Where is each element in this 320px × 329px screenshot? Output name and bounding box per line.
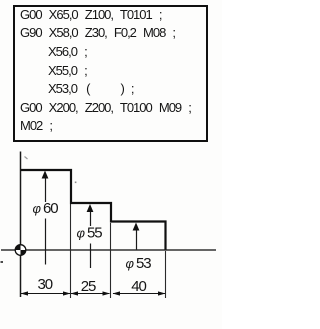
code line 6 [20, 100, 191, 115]
svg-text:φ 53: φ 53 [126, 255, 152, 272]
svg-text:40: 40 [131, 278, 146, 295]
scan speck [25, 157, 28, 160]
dimension phi53 arrowhead [133, 223, 140, 231]
centerline axis [1, 249, 216, 251]
dimension phi53 arrow line [136, 226, 138, 250]
workpiece origin symbol [15, 245, 26, 256]
dimension phi60 arrowhead [42, 171, 49, 179]
code line 5 [48, 81, 134, 96]
program code box [13, 5, 208, 142]
code line 1 [20, 7, 161, 22]
code line 7 [20, 118, 52, 133]
dimension line 25 [71, 293, 110, 295]
code line 3 [48, 44, 87, 59]
svg-text:30: 30 [38, 276, 53, 293]
extension line at x=165.5 [165, 251, 167, 298]
svg-text:25: 25 [81, 278, 96, 295]
svg-text:φ 55: φ 55 [77, 225, 103, 242]
svg-text:φ 60: φ 60 [33, 200, 59, 217]
dimension phi55 arrow line [90, 207, 92, 226]
dimension phi60 arrow line [45, 174, 47, 202]
workpiece step profile [21, 170, 166, 250]
code line 4 [48, 63, 87, 78]
dimension phi55 arrowhead [87, 204, 94, 212]
extension line at x=110 [110, 223, 112, 298]
left end face / extension line [20, 152, 22, 298]
dimension line 40 [113, 293, 165, 295]
extension line at x=70.5 [70, 204, 72, 298]
dimension line 30 [21, 293, 70, 295]
scan speck [75, 182, 77, 184]
scan speck [1, 261, 4, 263]
code line 2 [20, 25, 175, 40]
